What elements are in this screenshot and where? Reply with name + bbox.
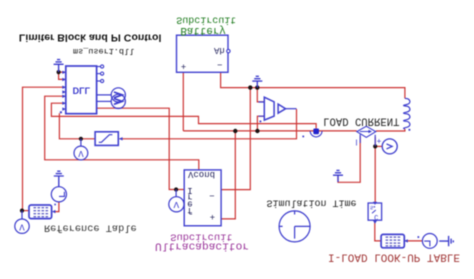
svg-text:DLL: DLL xyxy=(73,86,91,96)
DLL bottom-left pin mark xyxy=(60,111,62,113)
label I-LOAD LOOK-UP TABLE xyxy=(328,251,460,263)
battery minus label xyxy=(217,60,222,70)
battery plus label xyxy=(181,62,186,72)
battery Ah label xyxy=(214,45,225,55)
wire DLL right output to ultracap Iref pin xyxy=(97,108,185,189)
junction dot Iref / voltmeter V2 xyxy=(174,187,178,191)
svg-text:+: + xyxy=(377,136,382,145)
wire reference table left pin xyxy=(22,210,29,212)
label Subcircuit (ultracap) xyxy=(170,231,232,243)
svg-text:Battery: Battery xyxy=(180,24,226,36)
svg-text:Vcond: Vcond xyxy=(188,169,215,179)
svg-text:Simulation Time: Simulation Time xyxy=(266,197,356,209)
diamond plus label xyxy=(377,136,382,145)
junction dot top bus ground G2 xyxy=(255,85,259,89)
rotated ground G3 xyxy=(439,236,453,246)
reference step source xyxy=(51,187,66,202)
wire battery right terminal to top bus and inductor top xyxy=(221,72,405,98)
diamond I label xyxy=(355,137,357,146)
label Battery xyxy=(180,24,226,36)
wire trapezoid bottom input down to main bus xyxy=(257,116,264,131)
hop left tiny dot xyxy=(302,136,304,138)
wire triangle output down and limiter feedback xyxy=(120,109,297,139)
wire main horizontal bus y=131 to diamond xyxy=(183,130,356,132)
reference table grid xyxy=(34,207,49,217)
limiter block xyxy=(95,132,118,146)
trapezoid amplifier xyxy=(264,97,285,120)
DLL block U1 xyxy=(66,66,97,114)
controlled source circle pair right of DLL xyxy=(97,88,126,109)
junction dot ground G1 / DLL pin1 xyxy=(57,70,61,74)
diamond inner arrow xyxy=(360,131,369,133)
title Limiter Block and PI Control xyxy=(19,31,162,43)
wire DLL pin5 feedback to hop square xyxy=(51,103,316,128)
limiter right input arrow xyxy=(119,137,123,140)
wire DLL pin4 down to Vcond top pin xyxy=(45,96,199,170)
wire diamond bottom-right down to F-C block xyxy=(374,137,376,203)
trapezoid input stubs xyxy=(259,102,265,116)
reference table small dot xyxy=(54,204,56,206)
ultracap plus label xyxy=(210,212,215,222)
svg-text:V: V xyxy=(78,148,84,158)
svg-text:+: + xyxy=(210,212,215,222)
limiter symbol xyxy=(99,135,113,143)
ultracap minus label xyxy=(209,191,214,201)
wire reference source to reference table xyxy=(55,202,59,212)
wires group xyxy=(22,72,422,241)
ultracapacitor subcircuit box xyxy=(184,170,221,226)
wire diamond right to inductor bottom xyxy=(376,129,405,131)
I-load table small dot xyxy=(418,236,420,238)
svg-text:I-LOAD LOOK-UP TABLE: I-LOAD LOOK-UP TABLE xyxy=(328,251,460,263)
reference table right input arrow xyxy=(52,210,56,213)
ultracap Vcond label xyxy=(188,169,215,179)
wire vertical x250 from top bus to ultracap pin A xyxy=(221,88,250,190)
reference table block xyxy=(29,205,52,219)
svg-text:f: f xyxy=(187,205,192,215)
svg-text:Ah: Ah xyxy=(214,45,225,55)
junction dot top bus x250 xyxy=(248,85,252,89)
wire ground junction down to trapezoid top input xyxy=(257,88,264,102)
DLL label xyxy=(73,86,91,96)
ultracap Iref vertical label xyxy=(187,185,192,195)
svg-text:+: + xyxy=(181,62,186,72)
label Subcircuit (battery) xyxy=(176,14,236,26)
trapezoid output stub xyxy=(286,108,297,110)
junction dot diamond bottom-right / probe xyxy=(373,144,377,148)
F-C converter block xyxy=(368,203,382,220)
wire junction to current probe xyxy=(375,145,382,147)
ground G5 above reference source xyxy=(54,171,64,187)
wire F-C block bottom to I-load table xyxy=(375,220,381,241)
wire diamond bottom-left to ground G4 xyxy=(338,136,360,182)
svg-text:Limiter Block and PI Control: Limiter Block and PI Control xyxy=(19,31,162,43)
diamond bottom stubs xyxy=(360,134,375,146)
DLL right output stubs with circles xyxy=(97,65,104,83)
svg-text:V: V xyxy=(174,199,180,210)
ground G2 near battery xyxy=(252,76,262,87)
junction dot main bus x235 xyxy=(233,129,237,133)
label Ultracapacitor xyxy=(155,240,249,252)
label LOAD CURRENT xyxy=(323,114,399,126)
inductor L1 xyxy=(404,98,410,128)
junction dot reference table / voltmeter V3 xyxy=(20,209,24,213)
DLL left input pin arrows xyxy=(60,71,66,114)
wire ultracap pin B up to main bus xyxy=(221,131,235,219)
components group xyxy=(15,35,454,248)
svg-text:C: C xyxy=(374,212,378,220)
ground G1 above DLL xyxy=(54,60,64,72)
label Reference Table xyxy=(44,221,137,233)
title ms_user1.dll xyxy=(73,46,134,56)
battery subcircuit box xyxy=(177,35,229,72)
svg-text:−: − xyxy=(217,60,222,70)
I-load table grid xyxy=(386,237,401,247)
svg-text:−: − xyxy=(209,191,214,201)
svg-text:ms_user1.dll: ms_user1.dll xyxy=(73,46,134,56)
junction dot main bus x257 xyxy=(255,129,259,133)
wire ground G1 to DLL pins 1 and 2 xyxy=(59,72,66,79)
wire hop with square node xyxy=(310,129,322,137)
wire I-load table to step source xyxy=(405,240,423,242)
junction dot limiter output / voltmeter V1 xyxy=(79,137,83,141)
svg-text:Reference Table: Reference Table xyxy=(44,221,137,233)
I-load step source xyxy=(422,234,437,249)
wire DLL bottom pin to limiter input xyxy=(59,113,95,139)
I-load table right input arrow xyxy=(404,239,408,242)
svg-text:V: V xyxy=(19,221,25,231)
ground G4 near diamond xyxy=(333,170,343,182)
current probe circle xyxy=(382,139,397,154)
simulation time clock xyxy=(279,211,310,242)
F-C block glyphs xyxy=(370,204,374,211)
battery Ah pin circle xyxy=(227,49,230,52)
svg-text:Ultracapacitor: Ultracapacitor xyxy=(155,240,249,252)
I-load table block xyxy=(381,234,404,247)
svg-text:s: s xyxy=(370,204,374,211)
F-C block arrows xyxy=(373,202,377,205)
svg-text:Subcircuit: Subcircuit xyxy=(176,14,236,26)
voltmeter V2 xyxy=(169,190,184,212)
label Simulation Time xyxy=(266,197,356,209)
inductor polarity dot xyxy=(409,129,411,131)
trapezoid corner dot xyxy=(260,121,262,123)
voltmeter V1 xyxy=(74,139,88,160)
svg-text:LOAD CURRENT: LOAD CURRENT xyxy=(323,114,399,126)
wire DLL pin3 down left side to reference table junction xyxy=(23,87,66,210)
diamond current source xyxy=(357,126,376,137)
svg-text:I: I xyxy=(355,137,357,146)
voltmeter V3 xyxy=(15,211,29,234)
wire battery left terminal down to main bus xyxy=(182,72,184,131)
